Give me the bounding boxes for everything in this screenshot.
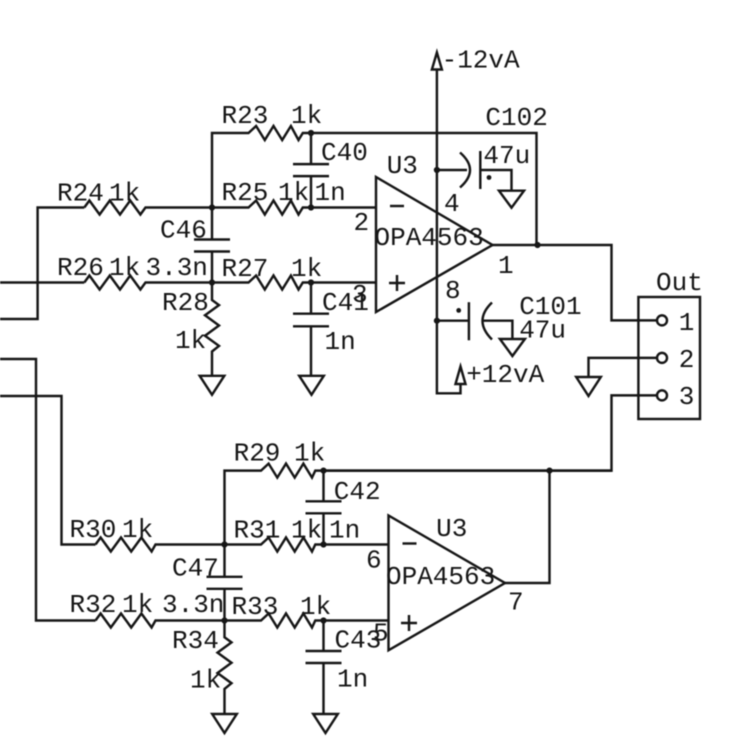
svg-text:2: 2 bbox=[354, 208, 370, 238]
svg-text:1k: 1k bbox=[175, 326, 206, 356]
svg-text:R34: R34 bbox=[172, 626, 219, 656]
svg-text:3.3n: 3.3n bbox=[162, 590, 224, 620]
svg-text:Out: Out bbox=[656, 268, 703, 298]
svg-text:R27: R27 bbox=[222, 254, 269, 284]
svg-text:R29: R29 bbox=[234, 439, 281, 469]
svg-text:47u: 47u bbox=[519, 316, 566, 346]
svg-text:8: 8 bbox=[445, 276, 461, 306]
svg-text:R33: R33 bbox=[232, 592, 279, 622]
svg-text:R32: R32 bbox=[70, 590, 117, 620]
svg-text:+12vA: +12vA bbox=[466, 360, 544, 390]
svg-text:1: 1 bbox=[679, 308, 695, 338]
svg-text:C47: C47 bbox=[172, 554, 219, 584]
svg-text:1k: 1k bbox=[109, 253, 140, 283]
svg-text:4: 4 bbox=[444, 189, 460, 219]
svg-text:1k: 1k bbox=[278, 178, 309, 208]
svg-text:C40: C40 bbox=[321, 138, 368, 168]
svg-text:1k: 1k bbox=[122, 590, 153, 620]
svg-text:R25: R25 bbox=[222, 178, 269, 208]
svg-text:R31: R31 bbox=[234, 516, 281, 546]
svg-text:7: 7 bbox=[508, 588, 524, 618]
svg-text:1k: 1k bbox=[190, 666, 221, 696]
svg-text:U3: U3 bbox=[436, 514, 467, 544]
svg-text:1k: 1k bbox=[122, 515, 153, 545]
svg-text:5: 5 bbox=[373, 619, 389, 649]
svg-text:1k: 1k bbox=[109, 179, 140, 209]
svg-text:1k: 1k bbox=[294, 439, 325, 469]
svg-text:C46: C46 bbox=[160, 216, 207, 246]
svg-text:OPA4563: OPA4563 bbox=[375, 223, 484, 253]
svg-text:R28: R28 bbox=[162, 288, 209, 318]
svg-text:1k: 1k bbox=[291, 516, 322, 546]
svg-text:1n: 1n bbox=[329, 516, 360, 546]
svg-text:6: 6 bbox=[366, 546, 382, 576]
svg-text:3.3n: 3.3n bbox=[146, 253, 208, 283]
svg-text:3: 3 bbox=[679, 382, 695, 412]
svg-text:1n: 1n bbox=[315, 178, 346, 208]
svg-text:-12vA: -12vA bbox=[442, 46, 520, 76]
svg-text:OPA4563: OPA4563 bbox=[386, 562, 495, 592]
svg-text:3: 3 bbox=[352, 280, 368, 310]
svg-text:1: 1 bbox=[498, 251, 514, 281]
svg-text:1n: 1n bbox=[337, 665, 368, 695]
svg-text:R26: R26 bbox=[57, 253, 104, 283]
svg-text:1k: 1k bbox=[291, 101, 322, 131]
svg-text:1k: 1k bbox=[300, 592, 331, 622]
svg-text:1n: 1n bbox=[325, 327, 356, 357]
svg-text:47u: 47u bbox=[483, 141, 530, 171]
svg-text:C42: C42 bbox=[334, 477, 381, 507]
svg-text:R24: R24 bbox=[57, 179, 104, 209]
svg-text:2: 2 bbox=[679, 345, 695, 375]
svg-text:C102: C102 bbox=[485, 103, 547, 133]
svg-text:R23: R23 bbox=[222, 101, 269, 131]
svg-text:U3: U3 bbox=[387, 151, 418, 181]
svg-text:1k: 1k bbox=[291, 254, 322, 284]
svg-text:R30: R30 bbox=[70, 515, 117, 545]
